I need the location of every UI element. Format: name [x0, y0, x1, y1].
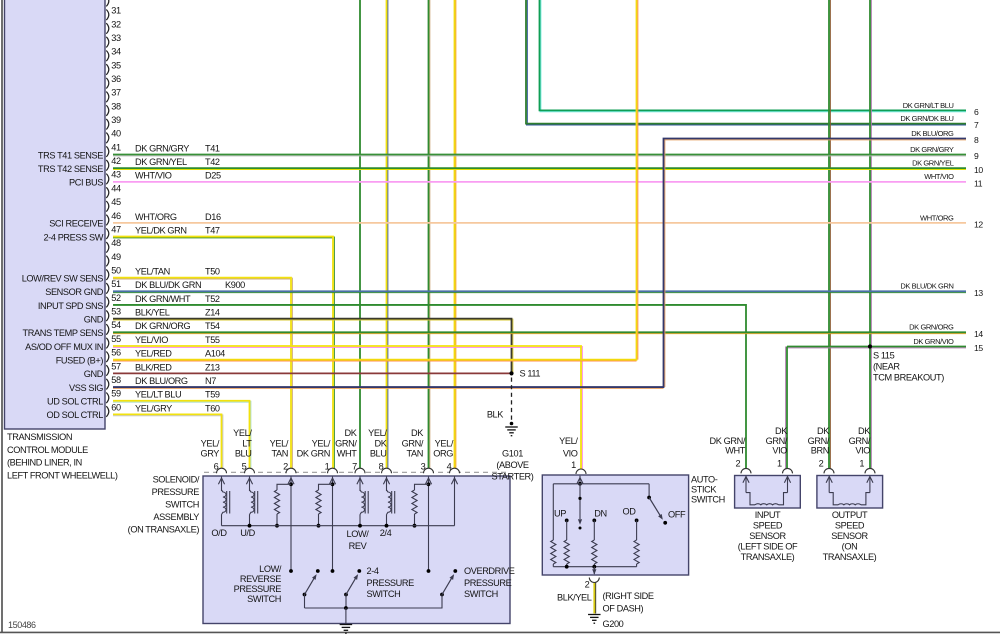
- svg-text:47: 47: [111, 224, 121, 234]
- svg-text:GND: GND: [84, 314, 104, 324]
- svg-text:15: 15: [974, 343, 983, 353]
- svg-text:D25: D25: [205, 171, 221, 181]
- svg-text:D16: D16: [205, 212, 221, 222]
- svg-text:38: 38: [111, 101, 121, 111]
- svg-text:VIO: VIO: [563, 448, 578, 458]
- svg-text:DK: DK: [411, 428, 424, 438]
- svg-text:1: 1: [859, 459, 864, 469]
- svg-text:(ON: (ON: [842, 541, 858, 551]
- svg-text:GRN/: GRN/: [808, 436, 830, 446]
- svg-text:48: 48: [111, 238, 121, 248]
- svg-text:REV: REV: [349, 541, 368, 551]
- svg-text:56: 56: [111, 348, 121, 358]
- svg-text:33: 33: [111, 33, 121, 43]
- svg-text:SPEED: SPEED: [835, 520, 865, 530]
- svg-text:34: 34: [111, 47, 121, 57]
- svg-text:35: 35: [111, 60, 121, 70]
- svg-text:43: 43: [111, 170, 121, 180]
- svg-text:6: 6: [214, 462, 219, 472]
- svg-text:TRANS TEMP SENS: TRANS TEMP SENS: [23, 328, 104, 338]
- svg-text:1: 1: [325, 462, 330, 472]
- svg-text:T52: T52: [205, 294, 220, 304]
- svg-text:WHT/ORG: WHT/ORG: [920, 213, 954, 222]
- svg-text:YEL/: YEL/: [435, 438, 454, 448]
- svg-text:9: 9: [974, 151, 979, 161]
- svg-text:YEL/DK GRN: YEL/DK GRN: [135, 225, 187, 235]
- svg-text:49: 49: [111, 252, 121, 262]
- svg-text:T60: T60: [205, 403, 220, 413]
- svg-text:OD: OD: [623, 507, 637, 517]
- svg-text:SWITCH: SWITCH: [464, 589, 498, 599]
- svg-text:50: 50: [111, 266, 121, 276]
- svg-text:BLK/RED: BLK/RED: [135, 362, 172, 372]
- svg-text:37: 37: [111, 88, 121, 98]
- svg-text:(ON TRANSAXLE): (ON TRANSAXLE): [128, 525, 200, 535]
- svg-text:(BEHIND LINER, IN: (BEHIND LINER, IN: [7, 458, 82, 468]
- svg-text:46: 46: [111, 211, 121, 221]
- svg-text:AS/OD OFF MUX IN: AS/OD OFF MUX IN: [25, 342, 103, 352]
- svg-text:ASSEMBLY: ASSEMBLY: [153, 512, 199, 522]
- svg-text:55: 55: [111, 334, 121, 344]
- svg-text:LOW/: LOW/: [259, 564, 282, 574]
- svg-text:2-4 PRESS SW: 2-4 PRESS SW: [43, 232, 103, 242]
- svg-text:30: 30: [111, 0, 121, 2]
- svg-text:T41: T41: [205, 143, 220, 153]
- svg-text:YEL/RED: YEL/RED: [135, 349, 172, 359]
- svg-text:WHT: WHT: [725, 446, 746, 456]
- svg-text:DK BLU/ORG: DK BLU/ORG: [135, 376, 188, 386]
- svg-text:DK: DK: [775, 426, 788, 436]
- svg-text:SPEED: SPEED: [753, 520, 783, 530]
- svg-text:(LEFT SIDE OF: (LEFT SIDE OF: [738, 541, 798, 551]
- svg-text:YEL/: YEL/: [233, 428, 252, 438]
- svg-text:BLK/YEL: BLK/YEL: [557, 593, 592, 603]
- svg-text:AUTO-: AUTO-: [691, 475, 718, 485]
- svg-text:VIO: VIO: [772, 446, 787, 456]
- svg-text:DK GRN/ORG: DK GRN/ORG: [135, 321, 190, 331]
- svg-text:OVERDRIVE: OVERDRIVE: [464, 566, 515, 576]
- svg-text:YEL/: YEL/: [559, 436, 578, 446]
- svg-text:SENSOR GND: SENSOR GND: [45, 287, 104, 297]
- svg-text:DK: DK: [858, 426, 871, 436]
- svg-text:42: 42: [111, 156, 121, 166]
- svg-text:BLK: BLK: [487, 410, 504, 420]
- svg-text:G101: G101: [502, 448, 523, 458]
- svg-text:6: 6: [974, 107, 979, 117]
- svg-text:DK GRN/GRY: DK GRN/GRY: [135, 143, 189, 153]
- svg-text:12: 12: [974, 219, 983, 229]
- svg-text:OUTPUT: OUTPUT: [832, 510, 868, 520]
- svg-text:OF DASH): OF DASH): [603, 603, 644, 613]
- svg-text:REVERSE: REVERSE: [240, 574, 281, 584]
- svg-text:32: 32: [111, 19, 121, 29]
- svg-text:36: 36: [111, 74, 121, 84]
- svg-text:LT: LT: [242, 438, 252, 448]
- svg-text:(NEAR: (NEAR: [873, 361, 900, 371]
- svg-text:8: 8: [974, 135, 979, 145]
- svg-text:DK GRN/DK BLU: DK GRN/DK BLU: [900, 114, 953, 123]
- svg-text:Z14: Z14: [205, 308, 220, 318]
- svg-text:44: 44: [111, 183, 121, 193]
- svg-text:LOW/: LOW/: [347, 529, 370, 539]
- svg-text:DK GRN/GRY: DK GRN/GRY: [910, 145, 954, 154]
- svg-text:DK GRN: DK GRN: [297, 449, 330, 459]
- svg-text:K900: K900: [225, 280, 245, 290]
- svg-text:53: 53: [111, 307, 121, 317]
- svg-text:G200: G200: [603, 619, 624, 629]
- svg-text:GRN/: GRN/: [849, 436, 871, 446]
- svg-text:3: 3: [421, 462, 426, 472]
- svg-text:31: 31: [111, 6, 121, 16]
- svg-text:ORG: ORG: [433, 449, 453, 459]
- svg-text:PRESSURE: PRESSURE: [367, 578, 415, 588]
- svg-text:BLK/YEL: BLK/YEL: [135, 308, 170, 318]
- svg-text:54: 54: [111, 320, 121, 330]
- svg-text:VSS SIG: VSS SIG: [69, 383, 103, 393]
- svg-text:(RIGHT SIDE: (RIGHT SIDE: [603, 591, 654, 601]
- svg-text:DN: DN: [594, 509, 606, 519]
- svg-text:4: 4: [447, 462, 452, 472]
- svg-text:SWITCH: SWITCH: [247, 594, 281, 604]
- svg-text:BLU: BLU: [370, 449, 387, 459]
- svg-text:DK GRN/VIO: DK GRN/VIO: [913, 337, 954, 346]
- svg-text:GRN/: GRN/: [335, 438, 357, 448]
- svg-text:YEL/GRY: YEL/GRY: [135, 403, 172, 413]
- svg-text:58: 58: [111, 375, 121, 385]
- svg-text:YEL/LT BLU: YEL/LT BLU: [135, 390, 181, 400]
- svg-text:YEL/: YEL/: [312, 438, 331, 448]
- svg-text:150486: 150486: [8, 620, 36, 630]
- svg-text:PCI BUS: PCI BUS: [69, 178, 103, 188]
- svg-text:10: 10: [974, 165, 983, 175]
- svg-text:DK GRN/LT BLU: DK GRN/LT BLU: [903, 101, 954, 110]
- svg-text:TRS T42 SENSE: TRS T42 SENSE: [38, 164, 103, 174]
- svg-text:DK GRN/YEL: DK GRN/YEL: [135, 157, 187, 167]
- svg-text:PRESSURE: PRESSURE: [152, 487, 200, 497]
- svg-text:GND: GND: [84, 369, 104, 379]
- svg-text:DK BLU/DK GRN: DK BLU/DK GRN: [900, 282, 953, 291]
- svg-text:LEFT FRONT WHEELWELL): LEFT FRONT WHEELWELL): [7, 470, 118, 480]
- svg-text:39: 39: [111, 115, 121, 125]
- svg-text:YEL/TAN: YEL/TAN: [135, 267, 170, 277]
- svg-text:45: 45: [111, 197, 121, 207]
- svg-text:T54: T54: [205, 321, 220, 331]
- svg-text:GRY: GRY: [200, 449, 219, 459]
- svg-text:YEL/: YEL/: [201, 438, 220, 448]
- svg-text:SENSOR: SENSOR: [749, 531, 786, 541]
- svg-text:SWITCH: SWITCH: [165, 500, 199, 510]
- svg-text:GRN/: GRN/: [766, 436, 788, 446]
- svg-text:GRN/: GRN/: [402, 438, 424, 448]
- svg-text:YEL/VIO: YEL/VIO: [135, 335, 168, 345]
- svg-text:DK: DK: [817, 426, 830, 436]
- svg-text:T55: T55: [205, 335, 220, 345]
- svg-text:TCM BREAKOUT): TCM BREAKOUT): [873, 373, 944, 383]
- svg-text:2: 2: [735, 459, 740, 469]
- svg-text:YEL/: YEL/: [368, 428, 387, 438]
- svg-text:51: 51: [111, 279, 121, 289]
- svg-text:13: 13: [974, 288, 983, 298]
- svg-text:TRS T41 SENSE: TRS T41 SENSE: [38, 150, 103, 160]
- svg-text:BRN: BRN: [811, 446, 829, 456]
- svg-text:5: 5: [242, 462, 247, 472]
- svg-text:SWITCH: SWITCH: [691, 495, 725, 505]
- svg-text:WHT/VIO: WHT/VIO: [135, 171, 172, 181]
- svg-text:T59: T59: [205, 390, 220, 400]
- svg-text:A104: A104: [205, 349, 225, 359]
- svg-text:STARTER): STARTER): [492, 471, 534, 481]
- svg-text:T42: T42: [205, 157, 220, 167]
- svg-text:40: 40: [111, 129, 121, 139]
- svg-text:SWITCH: SWITCH: [367, 589, 401, 599]
- svg-text:WHT/VIO: WHT/VIO: [924, 172, 954, 181]
- svg-text:57: 57: [111, 361, 121, 371]
- svg-text:SOLENOID/: SOLENOID/: [153, 475, 200, 485]
- svg-text:LOW/REV SW SENS: LOW/REV SW SENS: [22, 273, 104, 283]
- svg-text:S 111: S 111: [520, 369, 541, 379]
- svg-text:1: 1: [777, 459, 782, 469]
- svg-text:T50: T50: [205, 267, 220, 277]
- svg-text:OFF: OFF: [668, 510, 686, 520]
- svg-text:UP: UP: [554, 509, 566, 519]
- svg-text:DK GRN/YEL: DK GRN/YEL: [912, 159, 954, 168]
- svg-text:2: 2: [585, 580, 590, 590]
- svg-text:11: 11: [974, 178, 983, 188]
- svg-text:STICK: STICK: [691, 485, 717, 495]
- svg-text:T47: T47: [205, 225, 220, 235]
- svg-text:PRESSURE: PRESSURE: [464, 578, 512, 588]
- svg-text:OD SOL CTRL: OD SOL CTRL: [46, 410, 103, 420]
- svg-text:(ABOVE: (ABOVE: [496, 460, 529, 470]
- svg-text:TRANSAXLE): TRANSAXLE): [741, 552, 795, 562]
- svg-text:DK: DK: [375, 438, 388, 448]
- svg-text:S 115: S 115: [873, 350, 895, 360]
- svg-text:59: 59: [111, 389, 121, 399]
- svg-text:TRANSAXLE): TRANSAXLE): [823, 552, 877, 562]
- svg-text:2: 2: [819, 459, 824, 469]
- svg-text:Z13: Z13: [205, 362, 220, 372]
- svg-text:BLU: BLU: [235, 449, 252, 459]
- svg-text:14: 14: [974, 329, 983, 339]
- svg-text:O/D: O/D: [211, 528, 227, 538]
- svg-text:7: 7: [352, 462, 357, 472]
- svg-text:VIO: VIO: [855, 446, 870, 456]
- svg-text:FUSED (B+): FUSED (B+): [56, 355, 104, 365]
- svg-text:DK BLU/DK GRN: DK BLU/DK GRN: [135, 280, 201, 290]
- svg-text:2/4: 2/4: [380, 528, 392, 538]
- svg-text:SCI RECEIVE: SCI RECEIVE: [49, 219, 103, 229]
- svg-text:YEL/: YEL/: [270, 438, 289, 448]
- svg-text:2: 2: [283, 462, 288, 472]
- svg-text:DK BLU/ORG: DK BLU/ORG: [911, 129, 954, 138]
- svg-text:DK: DK: [345, 428, 358, 438]
- svg-text:CONTROL MODULE: CONTROL MODULE: [7, 445, 88, 455]
- svg-text:TAN: TAN: [407, 449, 424, 459]
- svg-text:8: 8: [379, 462, 384, 472]
- svg-text:UD SOL CTRL: UD SOL CTRL: [47, 397, 103, 407]
- svg-text:52: 52: [111, 293, 121, 303]
- svg-text:WHT/ORG: WHT/ORG: [135, 212, 177, 222]
- svg-text:1: 1: [571, 460, 576, 470]
- svg-text:60: 60: [111, 402, 121, 412]
- svg-text:INPUT SPD SNS: INPUT SPD SNS: [38, 301, 103, 311]
- svg-text:PRESSURE: PRESSURE: [234, 584, 282, 594]
- svg-text:DK GRN/: DK GRN/: [710, 436, 746, 446]
- svg-text:INPUT: INPUT: [755, 510, 781, 520]
- svg-text:DK GRN/ORG: DK GRN/ORG: [909, 323, 954, 332]
- svg-text:N7: N7: [205, 376, 216, 386]
- svg-text:TRANSMISSION: TRANSMISSION: [7, 432, 72, 442]
- svg-text:TAN: TAN: [272, 449, 289, 459]
- svg-text:U/D: U/D: [240, 528, 255, 538]
- svg-text:2-4: 2-4: [367, 566, 379, 576]
- svg-text:DK GRN/WHT: DK GRN/WHT: [135, 294, 191, 304]
- svg-text:7: 7: [974, 120, 979, 130]
- svg-text:WHT: WHT: [337, 449, 358, 459]
- svg-text:41: 41: [111, 142, 121, 152]
- svg-text:SENSOR: SENSOR: [831, 531, 868, 541]
